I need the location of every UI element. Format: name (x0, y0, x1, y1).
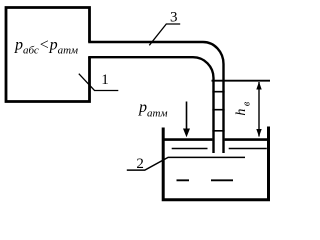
liquid shading dashes (177, 179, 234, 181)
label 2 leader (127, 157, 245, 170)
tube 3 outer wall (88, 42, 223, 153)
h_v dimension line (258, 82, 260, 137)
tube graduation ticks (212, 92, 224, 131)
liquid surface line (162, 138, 270, 141)
tube 3 inner wall (88, 57, 213, 153)
svg-text:3: 3 (170, 9, 178, 25)
vessel box 1 (6, 8, 90, 102)
svg-text:2: 2 (136, 156, 144, 172)
label 1 leader (79, 74, 119, 91)
svg-text:1: 1 (101, 72, 109, 88)
liquid surface dashes (172, 148, 267, 150)
h_v extension line (212, 80, 271, 82)
p_atm arrow (186, 102, 188, 130)
tank 2 walls (163, 127, 268, 200)
label 3 leader (149, 24, 180, 45)
